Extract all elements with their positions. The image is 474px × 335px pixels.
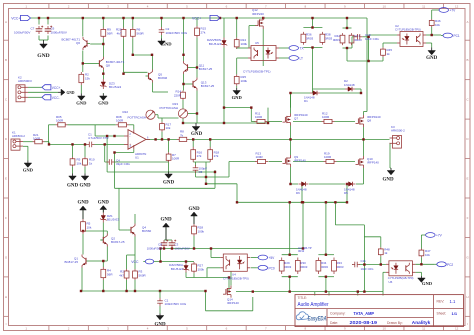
- resistor R21 100R: [33, 133, 45, 144]
- junction at (363.5,139.4): [362, 138, 364, 140]
- junction at (183.5,54.8): [182, 54, 184, 56]
- junction at (160,291): [159, 290, 161, 292]
- wire Q13 base feed: [184, 83, 191, 85]
- junction at (312.5,27.5): [311, 26, 313, 28]
- wire Q2 emitter: [103, 247, 107, 268]
- svg-text:1/1: 1/1: [452, 311, 458, 316]
- junction at (123.5,73.7): [122, 73, 124, 75]
- svg-text:GND: GND: [160, 217, 172, 222]
- svg-text:10nF C0G: 10nF C0G: [365, 37, 380, 41]
- wire C1b stem: [159, 291, 161, 314]
- wire Q9 drain up: [290, 139, 292, 155]
- svg-text:POTTRCASH: POTTRCASH: [127, 115, 146, 119]
- svg-text:ARK500/3: ARK500/3: [18, 79, 32, 83]
- resistor R47 10k: [419, 249, 431, 258]
- junction at (325.9,276.7): [325, 276, 327, 278]
- net flag LT: [287, 56, 303, 61]
- svg-text:U6: U6: [389, 280, 393, 284]
- svg-text:GND: GND: [382, 178, 394, 183]
- svg-text:7k: 7k: [180, 133, 184, 137]
- resistor R46 10k: [429, 19, 441, 27]
- junction at (39,18): [38, 17, 40, 19]
- wire Q8 emitter to DZ3: [102, 70, 104, 79]
- ground above R28: [188, 207, 200, 224]
- wire R4 to bus: [102, 280, 104, 291]
- wire R48 bottom: [380, 256, 382, 264]
- resistor R13 100R: [255, 152, 268, 164]
- wire U2 out lower to GND: [426, 43, 432, 48]
- wire Q1 base: [89, 260, 103, 262]
- svg-text:VCC-: VCC-: [52, 96, 60, 100]
- junction at (104.7,144.4): [104, 143, 106, 145]
- svg-text:27k: 27k: [201, 30, 206, 34]
- wire C11 row: [352, 264, 386, 266]
- resistor R5 10k: [70, 157, 82, 167]
- svg-text:1000uF/50V: 1000uF/50V: [147, 246, 162, 250]
- junction at (194,248.5): [193, 247, 195, 249]
- resistor R5b 10k: [81, 219, 92, 234]
- junction at (325.9,291.6): [325, 290, 327, 292]
- resistor R18 27k: [208, 147, 220, 162]
- diode D1 1N4148: [304, 91, 320, 103]
- junction at (183,123): [182, 122, 184, 124]
- wire rail x224: [223, 61, 225, 124]
- junction at (197,113.5): [196, 112, 198, 114]
- wire R27 bottom: [186, 272, 229, 278]
- junction at (357.8,291.6): [357, 290, 359, 292]
- junction at (220,18): [219, 17, 221, 19]
- svg-text:+5V: +5V: [269, 256, 276, 260]
- wire Q10 top: [363, 139, 365, 156]
- net flag PC1: [441, 33, 460, 38]
- capacitor C1 4.7uF/50V X7R: [87, 132, 110, 147]
- junction at (206,183.8): [205, 183, 207, 185]
- junction at (107.1,136): [106, 135, 108, 137]
- resistor R29 0R03: [279, 258, 291, 275]
- svg-text:Date:: Date:: [330, 321, 338, 325]
- wire R08 to opamp top: [129, 125, 134, 130]
- wire Q1 cluster top gnds: [83, 210, 103, 220]
- resistor R7 100R: [166, 152, 180, 162]
- resistor R05 100R: [56, 115, 68, 127]
- transistor Q10 IRFP140: [356, 156, 380, 168]
- wire Q5 emitter down: [153, 83, 169, 93]
- net flag PC0: [256, 265, 275, 270]
- wire right loop vertical: [363, 225, 365, 292]
- transistor Q11 BC817-25: [184, 61, 213, 74]
- wire Q10 bottom to D rows: [356, 168, 364, 184]
- svg-text:Drawn By:: Drawn By:: [387, 321, 403, 325]
- wire DZ1 to Q2 base: [101, 223, 104, 241]
- junction at (380.8,264.5): [380, 263, 382, 265]
- wire R21 to C1 cap: [45, 142, 87, 145]
- svg-text:GND: GND: [98, 200, 110, 205]
- wire pot gnd stem: [195, 122, 197, 125]
- junction at (82.8,63.4): [82, 62, 84, 64]
- svg-text:F: F: [5, 216, 7, 220]
- capacitor C11 10nF C0G: [352, 259, 373, 271]
- wire D1 row: [291, 93, 362, 108]
- power flag VCC+ (K2): [42, 85, 61, 90]
- svg-text:BC560: BC560: [142, 229, 152, 233]
- resistor R12 100R: [322, 112, 335, 124]
- junction at (361,93): [360, 92, 362, 94]
- svg-text:10k: 10k: [425, 253, 430, 257]
- junction at (162,139.4): [161, 138, 163, 140]
- svg-text:GND: GND: [98, 101, 109, 106]
- junction at (252.8,291.6): [252, 290, 254, 292]
- potentiometer R23 POTTRCASH: [159, 102, 187, 118]
- junction at (82.8,18): [82, 17, 84, 19]
- wire R2b R3 bottoms: [127, 280, 135, 291]
- svg-text:GND: GND: [79, 184, 91, 189]
- svg-text:1k: 1k: [384, 251, 388, 255]
- junction at (172,248.5): [171, 247, 173, 249]
- svg-text:33pF C0G: 33pF C0G: [116, 162, 131, 166]
- transistor Q6 BC807-40LT1: [62, 37, 90, 50]
- svg-text:B: B: [466, 58, 468, 62]
- junction at (81,291): [80, 290, 82, 292]
- wire sub loop: [115, 170, 216, 188]
- zener diode DZ1 B1U5-E3: [100, 213, 119, 223]
- junction at (49,144.4): [48, 143, 50, 145]
- resistor R28 100k: [192, 224, 205, 236]
- wire R9 bottom: [102, 38, 104, 44]
- wire bank2 bars: [318, 255, 334, 277]
- svg-text:GND: GND: [232, 95, 243, 100]
- wire Q7-Q8 gate link: [293, 121, 355, 123]
- svg-text:1.1: 1.1: [450, 299, 456, 304]
- svg-text:GND: GND: [67, 91, 75, 95]
- wire R15-Q11 column: [196, 38, 198, 123]
- resistor R17 10k: [160, 122, 172, 132]
- ground upper R5b: [77, 200, 89, 219]
- wire row277 drop: [228, 278, 230, 292]
- svg-text:IRFP140: IRFP140: [227, 301, 239, 305]
- svg-text:11: 11: [422, 5, 425, 9]
- capacitor C6 1000uF/50V: [45, 26, 67, 35]
- svg-text:+7V: +7V: [450, 8, 457, 12]
- optocoupler U5 CYTLP185(GB-TP1): [243, 41, 279, 74]
- transistor Q8 IRFP9140 (output): [356, 115, 381, 127]
- svg-text:R22: R22: [122, 110, 128, 114]
- wire opamp out: [146, 138, 150, 140]
- wire U4 out flags: [251, 258, 256, 268]
- resistor R27 100k: [192, 262, 205, 273]
- junction at (268,123): [267, 122, 269, 124]
- wire caps row top gnd: [164, 228, 172, 241]
- svg-text:POTTRCASH: POTTRCASH: [159, 106, 178, 110]
- zener diode DZ2V56IA B1U5-E3: [169, 263, 189, 273]
- junction at (290.5,139.4): [289, 138, 291, 140]
- resistor R48 1k: [378, 247, 390, 256]
- wire VCC+ top bus: [31, 17, 368, 19]
- wire loop2: [107, 136, 215, 172]
- svg-text:CYTLP185(GB-TP0): CYTLP185(GB-TP0): [395, 28, 421, 32]
- resistor R38 0R03: [320, 32, 333, 45]
- junction at (126.6,291): [125, 290, 127, 292]
- capacitor C8a 1000uF/50V: [147, 240, 168, 251]
- svg-text:ARK500-2: ARK500-2: [391, 129, 405, 133]
- svg-text:0R03: 0R03: [337, 265, 344, 269]
- wire Q7 drain up: [290, 93, 292, 114]
- svg-text:100R: 100R: [116, 119, 124, 123]
- svg-text:0R12: 0R12: [298, 249, 305, 253]
- wire D row down to lower rail: [237, 184, 347, 202]
- wire U6 left pins: [383, 272, 386, 291]
- svg-text:BC846: BC846: [158, 76, 168, 80]
- svg-text:10k: 10k: [166, 126, 171, 130]
- svg-text:B1U5-E3: B1U5-E3: [209, 42, 222, 46]
- svg-text:GND: GND: [154, 322, 166, 327]
- ground under R25: [232, 88, 243, 100]
- svg-text:560R: 560R: [137, 31, 145, 35]
- ground left bias 1: [76, 94, 87, 106]
- resistor R36 0R03: [301, 32, 314, 45]
- svg-text:GND: GND: [37, 53, 49, 59]
- svg-text:D5: D5: [344, 191, 348, 195]
- junction at (236.7,18): [236, 17, 238, 19]
- resistor R41 0R03: [349, 33, 362, 45]
- zener diode DZ3 B1U5-E3: [100, 79, 121, 89]
- junction at (114.5,136): [113, 135, 115, 137]
- resistor R10 1k: [83, 157, 95, 167]
- wire R25 to GND: [236, 86, 238, 88]
- wire R46 to U2 out: [426, 27, 441, 35]
- junction at (103.3,44): [102, 43, 104, 45]
- wire C4 row: [105, 144, 169, 162]
- svg-text:GND: GND: [161, 42, 172, 47]
- wire R36-R38 bank top: [303, 18, 322, 28]
- capacitor C5 100pF: [193, 165, 207, 174]
- power flag VCC+ (center): [192, 15, 220, 20]
- svg-text:100R: 100R: [33, 137, 41, 141]
- junction at (205.5,291): [204, 290, 206, 292]
- wire row y183.8: [206, 162, 237, 202]
- junction at (83,231): [82, 230, 84, 232]
- svg-text:VCC: VCC: [131, 260, 139, 264]
- wire R5 gnd: [72, 167, 74, 174]
- ground under U2: [426, 48, 438, 61]
- optocoupler U4 CYTLP185(GB-TP0): [220, 254, 250, 281]
- svg-text:PC0: PC0: [269, 266, 275, 270]
- svg-text:2020-08-19: 2020-08-19: [350, 320, 378, 325]
- wire Q7 source down: [290, 126, 292, 140]
- net flag TX: [287, 46, 304, 51]
- resistor R3 560R: [133, 269, 147, 280]
- svg-text:27k: 27k: [214, 154, 219, 158]
- svg-text:LT: LT: [300, 57, 304, 61]
- junction at (347,18): [346, 17, 348, 19]
- EasyEDA logo: [296, 312, 327, 323]
- svg-text:11: 11: [422, 327, 425, 331]
- junction at (302,202.3): [301, 201, 303, 203]
- wire R17 bottom: [161, 132, 163, 140]
- wire row y177: [196, 162, 230, 178]
- junction at (132.8,18): [132, 17, 134, 19]
- wire Q1 emitter to bus: [81, 268, 82, 292]
- transistor Q9 IRFP140: [283, 155, 307, 167]
- resistor R34 0R03: [316, 258, 328, 275]
- wire +7V to R47: [421, 235, 423, 249]
- junction at (103.3,261): [102, 260, 104, 262]
- resistor R4 56R: [101, 267, 113, 280]
- junction at (368.6,61): [367, 60, 369, 62]
- wire R10 gnd: [84, 167, 86, 174]
- wire R16 R18 bottom bar: [193, 161, 210, 163]
- svg-text:1N4148: 1N4148: [344, 83, 355, 87]
- wire U6 out2 gnd: [415, 272, 421, 276]
- svg-text:Analityk: Analityk: [412, 320, 431, 325]
- svg-text:IRFP240: IRFP240: [252, 12, 264, 16]
- svg-text:VCC+: VCC+: [192, 17, 201, 21]
- junction at (347,184): [346, 183, 348, 185]
- wire bank1 bars: [282, 255, 298, 277]
- junction at (251.3,107.6): [250, 106, 252, 108]
- resistor R6 560R: [130, 28, 144, 39]
- junction at (48,18): [47, 17, 49, 19]
- resistor R25 100k: [234, 74, 247, 85]
- wire U4 to Q14 gate: [230, 271, 232, 285]
- svg-text:TITLE:: TITLE:: [298, 296, 308, 300]
- svg-text:12: 12: [455, 5, 459, 9]
- junction at (335.4,202.3): [334, 201, 336, 203]
- wire K2 pin2 to GND: [28, 91, 58, 93]
- svg-text:IRFP140: IRFP140: [294, 159, 306, 163]
- wire C5 stem: [195, 162, 197, 177]
- wire R28 stem: [193, 216, 195, 249]
- junction at (193.2,139.4): [192, 138, 194, 140]
- svg-text:10k: 10k: [77, 161, 82, 165]
- resistor R24 100k: [234, 38, 247, 49]
- capacitor C4 33pF C0G: [107, 158, 131, 166]
- svg-text:Q8: Q8: [106, 63, 110, 67]
- wire Q2 chain: [83, 231, 107, 234]
- junction at (303,248.5): [302, 247, 304, 249]
- svg-text:BC817-25: BC817-25: [199, 67, 213, 71]
- transistor Q8 BC807-40LT1: [96, 57, 124, 70]
- svg-text:VCC+: VCC+: [52, 86, 61, 90]
- wire U2 left pins: [369, 35, 397, 47]
- junction at (421.4,264.3): [420, 263, 422, 265]
- wire Q11 base right: [191, 67, 198, 69]
- svg-text:A: A: [5, 20, 7, 24]
- junction at (364.4,291.6): [363, 290, 365, 292]
- wire Q9-Q10 gate link: [293, 161, 355, 163]
- svg-text:4k7: 4k7: [119, 273, 124, 277]
- junction at (211,248.5): [210, 247, 212, 249]
- resistor R11 100R: [255, 112, 268, 124]
- junction at (103.3,291): [102, 290, 104, 292]
- svg-text:H: H: [466, 295, 468, 299]
- wire R2 to GND: [80, 85, 82, 94]
- power flag +7V (top right): [437, 8, 456, 13]
- wire U4 left pins: [207, 249, 220, 278]
- wire Q6 bias column: [82, 18, 84, 72]
- wire R24 drop: [236, 18, 238, 38]
- resistor R45 1k: [381, 47, 393, 57]
- wire K2 pin1 to VCC+: [28, 86, 42, 88]
- wire R48 top: [364, 237, 380, 248]
- power flag VCC- (K2): [42, 95, 60, 100]
- svg-text:B1U5-E3: B1U5-E3: [109, 85, 122, 89]
- net flag +5V: [256, 255, 275, 260]
- wire caps bottoms: [161, 247, 304, 250]
- svg-text:1k: 1k: [89, 161, 93, 165]
- wire R2b R3 tops: [127, 237, 135, 270]
- svg-text:C7: C7: [31, 26, 35, 30]
- junction at (237,202.3): [236, 201, 238, 203]
- svg-text:CYTLP185(GB-TP1): CYTLP185(GB-TP1): [243, 69, 271, 73]
- ground under U6: [418, 276, 433, 286]
- svg-text:Sheet:: Sheet:: [437, 312, 447, 316]
- svg-text:Q7: Q7: [294, 117, 298, 121]
- svg-text:GND: GND: [191, 132, 203, 137]
- transistor Q4 BC560: [128, 224, 152, 237]
- connector K1 ARK500-2: [11, 131, 25, 151]
- svg-text:H: H: [5, 295, 7, 299]
- svg-text:220R: 220R: [174, 93, 182, 97]
- wire VCC mid row: [154, 249, 194, 264]
- svg-text:1000uF/50V: 1000uF/50V: [175, 246, 190, 250]
- wire bus drop right: [206, 291, 253, 311]
- wire C7 stem: [38, 18, 40, 40]
- junction at (160.5,248.5): [159, 247, 161, 249]
- svg-text:56R: 56R: [107, 31, 113, 35]
- optocoupler U2 CYTLP185(GB-TP0): [395, 24, 426, 47]
- junction at (183.5,18): [182, 17, 184, 19]
- junction at (85,144.4): [84, 143, 86, 145]
- junction at (155.6,139.4): [154, 138, 156, 140]
- ground under C2: [158, 39, 173, 47]
- wire Q4 base: [119, 188, 128, 230]
- net flag PC2: [435, 262, 454, 267]
- svg-text:GND: GND: [163, 180, 175, 185]
- junction at (224,107.6): [223, 106, 225, 108]
- junction at (123.5,18): [122, 17, 124, 19]
- wire stub titletop3: [357, 292, 359, 296]
- svg-text:0R03: 0R03: [306, 36, 314, 40]
- junction at (289.7,276.7): [289, 276, 291, 278]
- svg-text:D6: D6: [296, 191, 300, 195]
- svg-text:0R03: 0R03: [355, 38, 363, 42]
- svg-text:1000uF/50V: 1000uF/50V: [51, 31, 67, 35]
- svg-text:100nF/50V C0G: 100nF/50V C0G: [166, 31, 188, 35]
- svg-text:U5: U5: [255, 41, 259, 45]
- junction at (289.7,254.7): [289, 254, 291, 256]
- svg-text:100k: 100k: [198, 229, 205, 233]
- wire Q14 row: [236, 291, 383, 293]
- transistor Q13 BC817-25: [190, 78, 215, 91]
- wire R47 to U6 out: [415, 257, 434, 264]
- junction at (224,123): [223, 122, 225, 124]
- wire K2 pin3 to VCC-: [28, 96, 42, 98]
- junction at (290.5,184): [289, 183, 291, 185]
- svg-text:10nF C0G: 10nF C0G: [361, 267, 374, 271]
- junction at (103.3,73.7): [102, 73, 104, 75]
- svg-text:Q6: Q6: [76, 41, 80, 45]
- ground flag K2 pin2: [58, 89, 75, 95]
- ground under K3: [382, 168, 394, 183]
- junction at (160.5,261.5): [159, 260, 161, 262]
- junction at (303,202.3): [302, 201, 304, 203]
- wire R15 drop: [196, 18, 198, 26]
- wire R5 hang: [72, 144, 74, 157]
- zener diode DZ2V56IN BZX55-E3: [207, 38, 227, 48]
- junction at (215,172): [214, 171, 216, 173]
- junction at (103.3,18): [102, 17, 104, 19]
- resistor R14 220R: [174, 90, 186, 100]
